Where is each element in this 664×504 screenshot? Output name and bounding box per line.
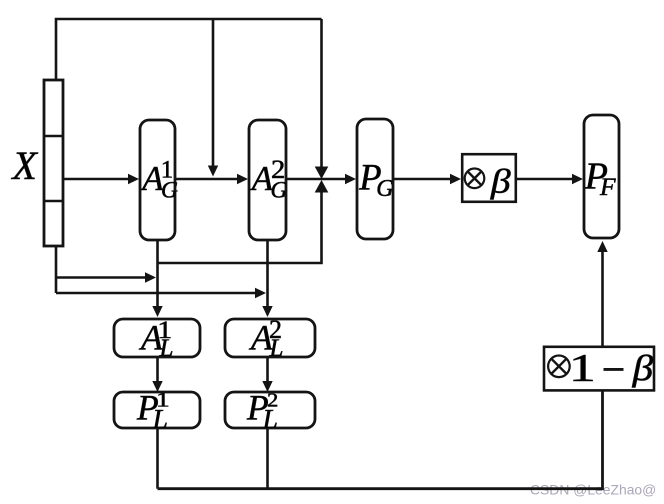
svg-text:β: β xyxy=(631,348,653,388)
wire P_L1 bottom to bottom bus xyxy=(156,428,159,489)
arrow P_G to beta-multiplier xyxy=(393,178,452,181)
wire: middle drop line into A_G1->A_G2 arrow xyxy=(212,19,215,167)
arrow X to local branch 1 (y=277.5) xyxy=(56,276,147,279)
svg-text:G: G xyxy=(271,178,288,204)
svg-text:F: F xyxy=(599,172,616,201)
wire from A_G1 line across at y=263 and up into main line (up arrowhead) xyxy=(158,193,322,264)
box P_L2 xyxy=(225,392,315,428)
box A_L1 xyxy=(114,319,200,357)
arrow A_G1 to A_G2 xyxy=(175,178,239,181)
svg-text:X: X xyxy=(10,143,38,188)
svg-text:L: L xyxy=(262,403,278,434)
wire A_G1 bottom down to A_L1 with arrowhead xyxy=(156,240,159,308)
svg-text:1: 1 xyxy=(569,347,596,390)
arrow A_L2 to P_L2 xyxy=(266,357,269,383)
input stack X xyxy=(44,80,63,246)
box A_G2 xyxy=(249,120,286,240)
arrow A_L1 to P_L1 xyxy=(156,357,159,383)
wire X bottom drop xyxy=(55,246,58,293)
arrow X to local branch 2 (y=293) xyxy=(56,292,257,295)
box A_L2 xyxy=(225,319,315,357)
wire bottom bus to 1-beta multiplier xyxy=(158,391,603,489)
svg-text:β: β xyxy=(490,164,511,201)
arrow X to A_G1 xyxy=(63,178,130,181)
wire A_G2 to P_G with arrowhead xyxy=(286,178,347,181)
wire 1-beta multiplier up to P_F with arrowhead xyxy=(601,251,604,347)
svg-text:L: L xyxy=(152,403,168,434)
svg-text:L: L xyxy=(159,335,174,362)
wire A_G2 bottom down to A_L2 with arrowhead xyxy=(266,240,269,308)
multiplier box ⊗1−β xyxy=(544,347,654,391)
svg-text:L: L xyxy=(269,335,284,362)
svg-text:G: G xyxy=(161,178,178,204)
wire: top feedback line from X up-over to right xyxy=(56,19,322,80)
box P_F xyxy=(584,115,619,238)
box A_G1 xyxy=(140,120,175,240)
svg-text:G: G xyxy=(376,176,393,202)
box P_G xyxy=(357,119,393,239)
box P_L1 xyxy=(114,392,200,428)
arrow beta-multiplier to P_F xyxy=(515,178,574,181)
wire P_L2 bottom to bottom bus xyxy=(266,428,269,489)
wire: right drop line at x=321.5 with down arrowhead xyxy=(320,19,323,168)
multiplier box ⊗β xyxy=(462,154,516,202)
